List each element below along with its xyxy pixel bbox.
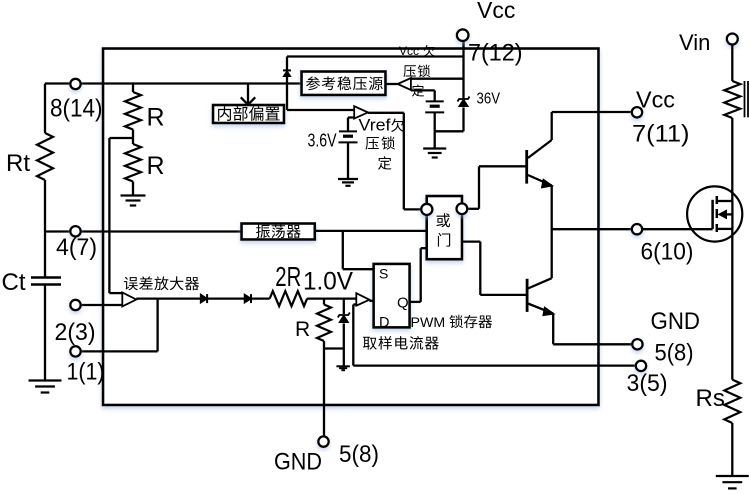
svg-text:1.0V: 1.0V (303, 268, 353, 296)
svg-text:8(14): 8(14) (50, 95, 103, 123)
svg-text:1(1): 1(1) (67, 359, 105, 386)
svg-text:Rs: Rs (696, 385, 725, 412)
svg-text:Vcc: Vcc (399, 44, 419, 58)
svg-text:2(3): 2(3) (55, 319, 96, 346)
svg-text:D: D (379, 315, 389, 331)
svg-text:S: S (379, 265, 388, 281)
svg-text:4(7): 4(7) (56, 234, 97, 261)
svg-text:Vcc: Vcc (636, 87, 675, 113)
svg-text:PWM: PWM (411, 315, 446, 331)
svg-text:Ct: Ct (2, 269, 26, 296)
svg-text:R: R (147, 152, 165, 180)
svg-text:3.6V: 3.6V (308, 131, 337, 151)
svg-text:36V: 36V (477, 91, 501, 108)
svg-text:GND: GND (651, 308, 701, 335)
svg-text:R: R (147, 104, 165, 132)
svg-text:GND: GND (274, 449, 322, 476)
svg-text:Rt: Rt (6, 150, 30, 177)
svg-text:2R: 2R (275, 261, 301, 292)
svg-text:7(11): 7(11) (632, 121, 690, 148)
svg-text:7(12): 7(12) (468, 40, 523, 67)
svg-text:Vref: Vref (359, 116, 391, 135)
svg-text:Vcc: Vcc (477, 0, 515, 23)
svg-text:R: R (295, 318, 310, 341)
svg-text:5(8): 5(8) (339, 441, 379, 468)
svg-text:5(8): 5(8) (655, 340, 694, 367)
svg-text:Q: Q (397, 295, 409, 312)
svg-text:3(5): 3(5) (627, 370, 668, 397)
svg-text:Vin: Vin (679, 30, 710, 55)
svg-text:6(10): 6(10) (641, 239, 694, 266)
